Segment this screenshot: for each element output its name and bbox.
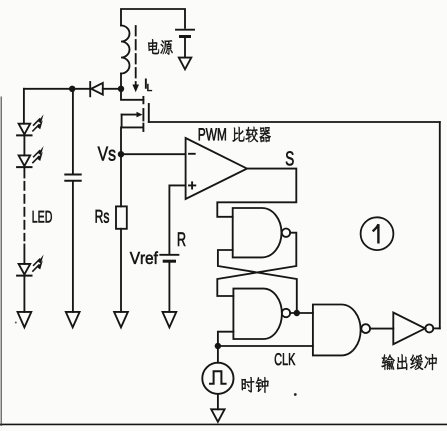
node U3 out (junction) [294,310,300,316]
page border left [0,97,2,426]
MOSFET Q1 channel bars [142,97,144,103]
paper speck [15,322,17,324]
nand U3 output bubble [282,309,290,317]
wire Vref to ground [168,263,170,312]
wire U3 out to U4 [297,312,313,314]
wire clock to ground [217,394,219,409]
capacitor C1 [65,174,80,176]
wire node B to capacitor [72,89,74,175]
LED D4 [19,264,31,275]
wire LED2 down [23,167,25,177]
label PWM 比较器 [199,128,226,140]
wire U3 out to cross [218,250,297,313]
ground (Rs) [114,312,128,328]
wire battery to ground [184,38,186,58]
battery Vref plate short [164,260,174,263]
op-amp U1 PWM comparator [186,138,247,199]
label CLK [275,353,295,365]
wire buffer out to rail [433,327,440,329]
comparator plus pin [189,182,195,188]
ground (capacitor) [66,312,80,328]
ground (power supply) [179,58,192,70]
wire comparator output S [217,169,296,217]
LED D3 [19,155,31,166]
MOSFET Q1 bulk lead [122,126,143,128]
label R [178,232,186,245]
wire CLK rail [218,345,313,347]
label Vs [98,147,116,161]
LED D3 arrows [34,151,40,157]
clock pulse symbol [210,371,226,383]
wire Vs to Rs [120,154,122,206]
label LED [33,211,52,223]
node B (junction) [69,86,75,92]
page border bottom [0,423,447,425]
paper speck [294,393,297,396]
label 时钟 [242,377,269,393]
label 输出缓冲 [381,354,436,370]
paper speck [351,350,353,352]
MOSFET Q1 source vertical [121,115,123,128]
nand U2 output bubble [282,229,290,237]
MOSFET Q1 gate bar [148,104,150,122]
inverter U5 bubble [425,324,433,332]
MOSFET Q1 source arrow [122,114,137,116]
ground (Vref) [163,312,177,328]
wire CLK node to clock [217,346,219,363]
LED D2 arrows [34,119,40,125]
wire Rs to ground [120,229,122,312]
node marker circled 1 [361,217,394,250]
wire gate to right rail [149,121,440,123]
battery 电源 plate long [176,29,194,31]
comparator minus pin [189,153,195,155]
label 电源 [148,39,173,54]
clock source circle [202,363,233,394]
node CLK (junction) [215,343,221,349]
node under inductor (junction) [118,86,124,92]
resistor Rs [116,206,127,228]
label S [286,151,294,165]
label Vref [130,251,158,263]
battery Vref plate long [160,254,178,256]
inductor L [121,26,130,74]
wire top loop [121,9,185,28]
wire coil to node [120,74,122,89]
wire right rail down [439,122,441,328]
LED D4 arrows [34,259,40,265]
wire diode to node B [72,88,90,90]
node Vs (junction) [118,151,124,157]
wire + input [169,185,185,253]
wire U3 clk input [218,332,234,346]
ground (clock) [211,409,224,422]
nand gate U4 [313,305,361,356]
wire source to Vs [120,127,122,154]
wire capacitor to ground [72,181,74,312]
LED D2 [19,124,31,135]
inverter U5 output buffer [393,313,425,345]
wire Vs to comparator - input [121,153,186,155]
MOSFET Q1 drain lead [121,89,143,100]
nand U4 output bubble [361,324,370,333]
wire LED branch top [23,89,25,124]
current arrow IL (dashed) [135,26,137,85]
wire U4 to buffer [370,328,393,330]
wire to LED3 [23,245,25,264]
wire U2 out to cross [217,233,296,296]
label Rs [96,210,109,223]
ground (LED branch) [18,312,32,328]
diode D1 [89,82,91,96]
wire LED1-LED2 [23,135,25,155]
wire node B to LED branch [24,88,72,90]
nand gate U2 (latch top) [233,208,282,257]
wire dashed continuation [23,182,25,241]
wire LED3 to ground [23,276,25,312]
label IL [145,79,152,91]
battery 电源 plate short [181,35,190,38]
wire node to diode [103,88,121,90]
nand gate U3 (latch bottom) [233,289,282,339]
